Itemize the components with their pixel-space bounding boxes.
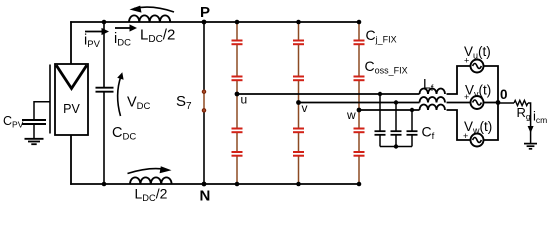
capacitor Coss_FIX (leg v, lower switch) [293, 152, 304, 156]
voltage arrow V_DC [117, 72, 123, 116]
source Vv [464, 83, 491, 110]
flux arrow (bottom inductor, pointing right) [128, 166, 172, 173]
bridge leg v (x=298.5) [293, 20, 304, 187]
svg-text:Vu(t): Vu(t) [464, 44, 491, 60]
node: leg v bottom junction [296, 182, 301, 187]
flux arrow (top inductor, pointing left) [130, 6, 175, 13]
node: Cf star point [394, 144, 398, 148]
node: leg u bottom junction [235, 182, 240, 187]
node P [202, 20, 207, 25]
wire: Vw output to node 0 [484, 103, 499, 141]
source Vw [463, 119, 492, 147]
capacitor Coss_FIX (leg v, upper switch) [293, 77, 304, 81]
source Vu [464, 44, 491, 73]
inductor Lf (phase v) [420, 97, 446, 103]
capacitor Cf (phase u) [375, 92, 386, 147]
resistor Rg [514, 100, 528, 105]
inductor Lf (phase u) [420, 89, 446, 94]
node: leg u top junction [235, 20, 240, 25]
wire: leg w segments [358, 22, 360, 184]
wire: top DC rail P [70, 21, 359, 23]
capacitor Cf (phase w) [407, 108, 418, 147]
wire: PV negative lead [70, 135, 72, 185]
svg-text:PV: PV [63, 102, 80, 116]
wire: leg v segments [298, 22, 300, 184]
wire: Vv output to node 0 [484, 102, 499, 104]
capacitor Coss_FIX (leg u, lower switch) [232, 152, 243, 156]
node: leg v top junction [296, 20, 301, 25]
bridge leg w (x=359) [354, 20, 365, 187]
svg-text:v: v [302, 101, 308, 115]
wire: phase line v [299, 102, 420, 104]
node: C_DC top junction [102, 20, 107, 25]
capacitor Cj_FIX (leg w, lower switch) [354, 129, 365, 133]
wire: Rg to ground [528, 103, 531, 143]
node: C_DC bottom junction [102, 182, 107, 187]
svg-text:u: u [241, 93, 248, 107]
capacitor Cj_FIX (leg u, upper switch) [232, 41, 243, 45]
capacitor Coss_FIX (leg u, upper switch) [232, 77, 243, 81]
wire: Cf star-point bus [380, 146, 412, 148]
capacitor Coss_FIX (leg w, upper switch) [354, 77, 365, 81]
wire: phase line u [237, 93, 420, 95]
wire: leg u segments [236, 22, 238, 184]
svg-text:Vv(t): Vv(t) [465, 83, 491, 99]
bridge leg u (x=237) [232, 20, 243, 187]
capacitor C_DC [96, 22, 114, 184]
node 0 [496, 100, 501, 105]
capacitor Cj_FIX (leg w, upper switch) [354, 41, 365, 45]
svg-text:0: 0 [500, 87, 508, 102]
node: leg w top junction [357, 20, 362, 25]
PV array panel [55, 64, 88, 135]
node: leg w bottom junction [357, 182, 362, 187]
ground (Rg) [524, 144, 537, 149]
wire: w line to Vw source [447, 110, 471, 140]
inductor Lf (phase w) [420, 105, 446, 111]
capacitor C_PV [22, 101, 51, 138]
inductor L_DC/2 (top) [129, 15, 170, 22]
capacitor Cf (phase v) [391, 100, 402, 146]
wire: phase line w [359, 109, 420, 111]
current arrow i_PV [84, 28, 109, 50]
wire: bottom DC rail N [70, 183, 359, 185]
capacitor Cj_FIX (leg v, lower switch) [293, 129, 304, 133]
node v [296, 100, 301, 105]
svg-text:P: P [200, 4, 210, 21]
ground (C_PV) [25, 139, 44, 144]
svg-text:N: N [200, 188, 211, 205]
wire: Vu output to node 0 [484, 66, 499, 103]
node w [357, 108, 362, 113]
wire: PV positive lead [70, 21, 72, 64]
switch S7 [202, 22, 205, 184]
node N [202, 182, 207, 187]
inductor L_DC/2 (bottom) [130, 177, 172, 184]
capacitor Cj_FIX (leg v, upper switch) [293, 41, 304, 45]
capacitor Coss_FIX (leg w, lower switch) [354, 152, 365, 156]
wire: node 0 to Rg [498, 102, 514, 104]
svg-text:w: w [346, 108, 356, 122]
current arrow i_cm [528, 109, 548, 134]
wire: v line to Vv source [447, 102, 471, 104]
current arrow i_DC [114, 24, 137, 48]
PV frame line [49, 65, 51, 134]
wire: u line to Vu source [447, 66, 471, 94]
node u [235, 92, 240, 97]
capacitor Cj_FIX (leg u, lower switch) [232, 129, 243, 133]
